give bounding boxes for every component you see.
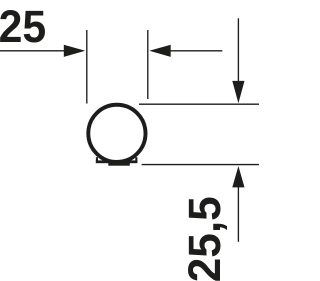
wire down-arrow shaft (25,5) [237, 18, 239, 84]
circle profile outline [88, 105, 145, 162]
extension line right (x=147.8) [147, 30, 149, 99]
wire up-arrow shaft (25,5) [237, 187, 239, 242]
arrowhead down-pointing (25,5 dim) [232, 81, 244, 103]
svg-text:25,5: 25,5 [181, 196, 230, 281]
wire top boundary line (25,5) [139, 103, 259, 105]
wire bottom boundary line (25,5) [142, 164, 259, 166]
extension line left (x=86.8) [86, 30, 88, 104]
right notch of base plate [135, 157, 137, 162]
wire dimension line right tail (25) [171, 50, 223, 52]
wire dimension line left (25) [0, 50, 64, 52]
arrowhead right-pointing (25 dim) [64, 45, 85, 57]
base plate outer bar [96, 160, 138, 163]
arrowhead left-pointing (25 dim) [149, 45, 170, 57]
svg-text:25: 25 [0, 2, 46, 52]
left notch of base plate [96, 157, 98, 162]
arrowhead up-pointing (25,5 dim) [232, 166, 244, 187]
base plate center bar [108, 162, 130, 166]
